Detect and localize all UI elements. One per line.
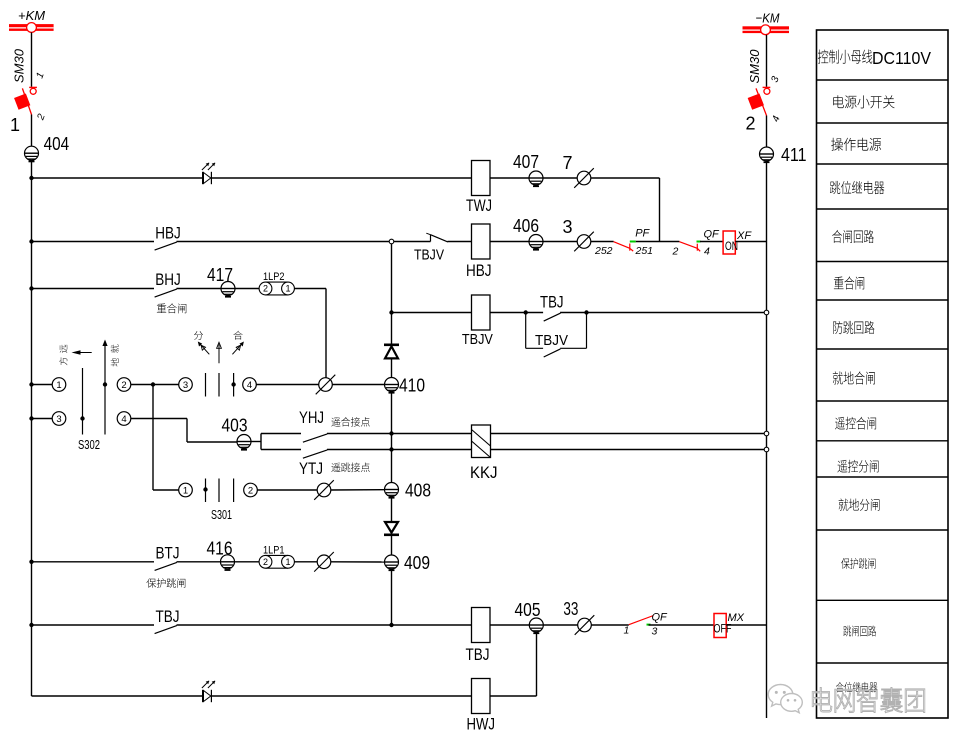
diode V2 (down)	[384, 522, 399, 535]
pin label 3 (right switch)	[769, 75, 781, 84]
indicator OFF (red box)	[714, 614, 726, 638]
legend row8: local closing	[833, 371, 843, 384]
legend row3: operating power	[831, 138, 843, 151]
wire 408 to diode V2	[391, 497, 393, 523]
wire selector to plug	[256, 384, 318, 386]
wire LED to coil TWJ	[211, 177, 471, 179]
wire 406 to plug 3	[543, 241, 577, 243]
watermark text dianwang zhinangtuan	[812, 688, 832, 712]
plug contact 3	[574, 232, 594, 252]
svg-text:HBJ: HBJ	[155, 224, 181, 243]
junction dot parallel-left	[524, 310, 528, 314]
wire bus drop from +KM	[31, 32, 33, 86]
wire diode V2 to 409	[391, 535, 393, 555]
legend table row lines	[817, 79, 949, 81]
indicator ON (red box)	[723, 231, 735, 254]
wire to S301 pin1	[153, 489, 179, 491]
contact BHJ (NO)	[32, 288, 155, 290]
diode V1 (up)	[384, 345, 399, 359]
terminal 407	[529, 171, 543, 186]
wire switch to terminal 411	[766, 116, 768, 148]
legend row10: remote opening	[837, 460, 847, 473]
link 1LP2	[259, 282, 294, 295]
wire BTJ to terminal 416	[177, 561, 221, 563]
wire switch to terminal 404	[31, 115, 33, 147]
svg-text:TBJV: TBJV	[462, 332, 493, 348]
pin 1 S301	[179, 483, 193, 497]
plug contact protection trip	[314, 552, 334, 572]
label chonghezha	[157, 303, 166, 313]
coil KKJ (latching)	[472, 425, 491, 458]
S302 wiper 2 with up arrow	[104, 342, 106, 435]
wire 410 to 408	[391, 392, 393, 483]
svg-text:416: 416	[207, 539, 233, 559]
contact HBJ (NO)	[32, 241, 155, 243]
pin label 4 (right switch)	[770, 114, 782, 123]
junction dot parallel-right	[584, 310, 588, 314]
wire plug 3 to PF contact	[591, 241, 614, 243]
junction dot spine-YTJ	[389, 447, 393, 451]
svg-text:ON: ON	[725, 241, 738, 253]
svg-text:QF: QF	[652, 612, 669, 624]
svg-text:HWJ: HWJ	[467, 715, 496, 734]
svg-text:PF: PF	[635, 228, 650, 240]
svg-text:KKJ: KKJ	[470, 463, 498, 482]
svg-text:405: 405	[515, 600, 541, 620]
coil HWJ	[472, 679, 491, 714]
svg-text:TBJV: TBJV	[535, 333, 568, 349]
terminal 405	[529, 618, 543, 633]
terminal 404	[25, 146, 39, 161]
svg-text:1: 1	[56, 380, 61, 391]
terminal 410	[385, 378, 399, 393]
arrow neutral (up)	[218, 345, 220, 364]
pin 1 S302	[52, 378, 66, 392]
svg-text:4: 4	[121, 414, 126, 425]
svg-text:YTJ: YTJ	[299, 459, 323, 478]
wire OFF to right line	[726, 624, 766, 626]
svg-text:417: 417	[207, 265, 233, 285]
wire YTJ to coil KKJ	[327, 449, 472, 451]
coil TBJV	[472, 295, 491, 330]
wire BHJ to terminal 417	[177, 288, 222, 290]
label he	[233, 331, 242, 340]
svg-text:+KM: +KM	[18, 8, 45, 23]
svg-text:408: 408	[405, 481, 431, 501]
wire bottom left segment	[32, 695, 203, 697]
junction dots on left bus	[29, 176, 33, 180]
terminal 416	[221, 555, 235, 570]
junction dot spine-TBJ row	[389, 623, 393, 627]
terminal 411	[760, 147, 774, 162]
wire TBJ contact to right	[560, 312, 764, 314]
contact PF (red, open)	[614, 242, 630, 249]
node circle right-TBJV row	[764, 310, 769, 315]
wire 407 to plug 7	[543, 177, 577, 179]
parallel branch TBJV (NC)	[525, 313, 527, 349]
node circle right-YTJ	[764, 447, 769, 452]
legend row4: trip position relay	[830, 181, 840, 194]
svg-text:2: 2	[263, 557, 268, 567]
wire corner down to close-selector	[325, 289, 327, 378]
junction node close/trip branch	[151, 382, 155, 386]
svg-text:S302: S302	[78, 438, 100, 452]
svg-text:BTJ: BTJ	[156, 544, 180, 563]
wire spine upper	[391, 244, 393, 345]
wire plug to 409	[331, 561, 385, 563]
svg-text:4: 4	[247, 380, 252, 391]
wire row TWJ left segment	[32, 177, 203, 179]
wire YHJ to coil KKJ	[327, 433, 472, 435]
pin 4 S302	[117, 412, 131, 426]
pin 3 S302	[52, 412, 66, 426]
svg-text:2: 2	[746, 114, 756, 134]
svg-text:3: 3	[652, 626, 658, 638]
wire stub bus to S302 pin3	[32, 418, 53, 420]
node circle right-YHJ	[764, 431, 769, 436]
wire plug to 408	[331, 489, 385, 491]
svg-text:1LP2: 1LP2	[263, 271, 285, 283]
wire to terminal 403	[187, 441, 237, 443]
wire 417 to link 1LP2	[235, 288, 259, 290]
svg-text:1: 1	[624, 625, 630, 637]
wire bracket vertical	[260, 434, 262, 450]
contact BTJ (NO)	[32, 561, 155, 563]
svg-text:TBJ: TBJ	[540, 293, 564, 312]
label baohu tiaozha	[146, 578, 156, 588]
wire coil TBJ to terminal 405	[490, 624, 529, 626]
svg-text:YHJ: YHJ	[299, 408, 324, 427]
wire corner down	[186, 419, 188, 443]
wire 403 to bracket	[251, 441, 261, 443]
wire KKJ to right line (lower)	[491, 449, 765, 451]
wire QF to lamp ON	[700, 241, 723, 243]
wire PF to junction	[636, 241, 680, 243]
svg-text:BHJ: BHJ	[155, 270, 181, 289]
pin 4 close-selector	[243, 378, 257, 392]
S302 wiper 1	[82, 368, 84, 435]
green mark QF trip	[647, 624, 651, 626]
svg-text:2: 2	[248, 485, 253, 496]
coil TWJ	[472, 161, 491, 196]
coil TBJ	[472, 608, 491, 643]
close-selector bars	[205, 373, 207, 397]
watermark wechat icon	[768, 685, 802, 713]
wire corner up to 405	[536, 632, 538, 696]
contact QF (red, open)	[679, 242, 697, 249]
LED top signal lamp	[202, 163, 215, 184]
wire TBJ contact to coil TBJ	[177, 624, 472, 626]
terminal 408	[385, 483, 399, 498]
svg-text:S301: S301	[211, 508, 232, 522]
svg-text:XF: XF	[736, 230, 752, 242]
busbar +KM (red)	[9, 23, 54, 33]
svg-text:3: 3	[183, 380, 188, 391]
wire 405 to plug 33	[543, 624, 577, 626]
svg-text:DC110V: DC110V	[872, 48, 931, 68]
svg-text:2: 2	[263, 284, 268, 294]
fuse-switch SM30 left (red)	[14, 87, 37, 114]
wire plug to terminal 410	[332, 384, 384, 386]
terminal 403	[237, 435, 251, 450]
label jiudi (rotated)	[111, 345, 119, 353]
svg-text:409: 409	[404, 553, 430, 573]
svg-text:251: 251	[635, 245, 654, 257]
link 1LP1	[259, 555, 294, 568]
fuse-switch SM30 right (red)	[748, 87, 771, 115]
svg-text:411: 411	[781, 145, 807, 165]
wire 416 to link 1LP1	[235, 561, 260, 563]
terminal 417	[221, 282, 235, 297]
label yaotiao jiedian	[331, 463, 340, 472]
terminal 406	[529, 235, 543, 250]
wire LED to coil HWJ	[211, 695, 471, 697]
svg-text:2: 2	[672, 246, 679, 258]
label yaohe jiedian	[331, 417, 340, 426]
legend row12: protection trip	[841, 558, 850, 569]
svg-text:TBJ: TBJ	[156, 607, 180, 626]
wire right vertical line	[766, 161, 768, 718]
svg-text:1: 1	[285, 557, 290, 567]
label SM30 (left)	[12, 48, 27, 83]
svg-text:3: 3	[56, 414, 61, 425]
svg-text:HBJ: HBJ	[466, 261, 492, 280]
contact TBJ (NO, left)	[32, 624, 155, 626]
wire ON to right line	[735, 241, 766, 243]
svg-text:1: 1	[285, 284, 290, 294]
wire 1LP1 to plug	[294, 561, 317, 563]
wire corner down to HBJ row	[659, 178, 661, 242]
label yuanfang (rotated)	[60, 345, 68, 353]
pin 2 S301	[244, 483, 258, 497]
green mark QF	[697, 241, 701, 243]
svg-text:TBJ: TBJ	[466, 645, 490, 664]
wire spine to coil TBJV	[392, 312, 472, 314]
legend row14: closed position relay	[836, 682, 844, 692]
terminal 409	[385, 555, 399, 570]
wire coil TWJ to terminal 407	[490, 177, 529, 179]
wire plug 33 to QF trip contact	[591, 624, 629, 626]
legend row11: local opening	[839, 499, 849, 511]
svg-text:1: 1	[183, 485, 188, 496]
plug contact close circuit	[316, 375, 336, 395]
plug contact trip circuit	[314, 480, 334, 500]
S301 bars	[205, 479, 207, 503]
legend row2: power switch	[833, 95, 844, 108]
wire S302-4 right	[131, 418, 187, 420]
LED bottom signal lamp	[202, 681, 215, 702]
wire diode to 410	[391, 358, 393, 377]
legend row5: closing circuit	[832, 230, 842, 243]
svg-text:410: 410	[399, 376, 425, 396]
coil HBJ	[472, 224, 491, 259]
svg-text:TWJ: TWJ	[466, 196, 492, 215]
svg-text:SM30: SM30	[12, 48, 27, 83]
wire S302-2 to close-selector pin3	[131, 384, 179, 386]
pin label 1 (left switch)	[34, 71, 46, 80]
legend row9: remote closing	[835, 417, 845, 430]
junction dot spine-TBJV row	[389, 310, 393, 314]
node spine top (circle)	[389, 239, 394, 244]
contact QF trip (red, open up)	[629, 616, 654, 625]
wire coil TBJV to TBJ contact	[490, 312, 543, 314]
junction dot spine-YHJ	[389, 431, 393, 435]
svg-text:−KM: −KM	[756, 11, 780, 26]
svg-text:1: 1	[10, 115, 20, 135]
wire bracket to YHJ contact	[261, 433, 301, 435]
plug contact 7	[574, 168, 594, 188]
pin 3 close-selector	[179, 378, 193, 392]
wire bracket to YTJ contact	[261, 449, 301, 451]
svg-text:403: 403	[222, 416, 248, 436]
wire KKJ to right line (upper)	[491, 433, 765, 435]
wire stub bus to S302 pin1	[32, 384, 53, 386]
legend row13: trip circuit	[843, 625, 851, 636]
svg-text:MX: MX	[728, 612, 745, 624]
wire 409 down to TBJ row	[391, 569, 393, 625]
svg-text:SM30: SM30	[747, 49, 762, 84]
wire branch down to S301	[152, 385, 154, 491]
arrow trip (up-left)	[199, 343, 209, 354]
label SM30 (right)	[747, 49, 762, 84]
svg-text:406: 406	[513, 216, 539, 236]
svg-text:1LP1: 1LP1	[263, 545, 285, 557]
svg-text:QF: QF	[704, 229, 721, 241]
legend row7: anti-pump circuit	[833, 321, 842, 334]
wire QF to lamp OFF	[649, 624, 715, 626]
svg-text:TBJV: TBJV	[414, 248, 444, 264]
legend row6: reclosing	[834, 277, 844, 290]
svg-text:252: 252	[594, 245, 613, 257]
pin label 2 (left switch)	[35, 112, 48, 122]
legend row1: control bus DC110V	[818, 50, 828, 64]
wire S301 to plug	[257, 489, 317, 491]
svg-text:33: 33	[563, 599, 578, 619]
legend table frame	[817, 30, 949, 718]
svg-text:2: 2	[121, 380, 126, 391]
wire TBJV to coil HBJ	[448, 241, 472, 243]
wire 1LP2 to corner	[294, 288, 326, 290]
label fen	[194, 331, 203, 340]
svg-text:4: 4	[704, 246, 710, 258]
wire bus drop from -KM	[766, 35, 768, 87]
svg-text:407: 407	[513, 152, 539, 172]
wire coil HWJ to corner	[490, 695, 537, 697]
svg-text:404: 404	[44, 134, 70, 154]
plug contact 33	[575, 615, 595, 635]
wire plug 7 to corner	[591, 177, 660, 179]
svg-text:3: 3	[563, 217, 573, 237]
pin 2 S302	[117, 378, 131, 392]
arrow remote (left)	[76, 352, 92, 354]
green mark PF	[630, 241, 636, 243]
arrow close (up-right)	[232, 343, 242, 354]
busbar -KM (red)	[743, 25, 790, 35]
wire left bus vertical	[31, 160, 33, 696]
wire HBJ contact to TBJV contact	[177, 241, 431, 243]
svg-text:7: 7	[563, 153, 573, 173]
wire coil HBJ to terminal 406	[490, 241, 529, 243]
